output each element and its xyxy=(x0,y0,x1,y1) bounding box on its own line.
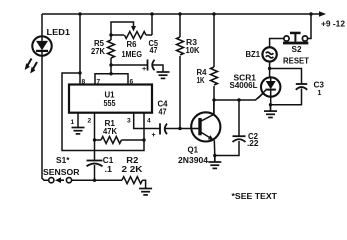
capacitor C2 xyxy=(215,100,246,156)
svg-text:2: 2 xyxy=(88,118,92,125)
node pin8 branch junction xyxy=(78,71,81,74)
LED light arrows xyxy=(25,59,37,74)
svg-text:+: + xyxy=(142,64,146,73)
LED D LED1 xyxy=(32,36,51,55)
node supply arrow xyxy=(319,11,326,17)
svg-text:27K: 27K xyxy=(91,47,105,56)
SCR SCR1 xyxy=(258,77,280,98)
capacitor C3 xyxy=(271,84,308,105)
wire pin7-pin6 bracket xyxy=(95,74,128,85)
wire LED cathode down left side xyxy=(42,56,48,181)
wire rail to R6 right xyxy=(151,14,153,35)
resistor R3 xyxy=(177,14,184,129)
capacitor C4 xyxy=(152,123,191,139)
wire pin8 column xyxy=(79,14,81,85)
svg-text:Q1: Q1 xyxy=(188,146,199,155)
svg-text:1: 1 xyxy=(318,90,322,97)
node BZ1 C3 junction xyxy=(268,67,271,70)
svg-text:+9 -12: +9 -12 xyxy=(321,19,346,28)
wire bottom sensor net xyxy=(72,179,122,181)
svg-text:6: 6 xyxy=(130,79,134,86)
svg-text:BZ1: BZ1 xyxy=(246,50,261,59)
ground C5 xyxy=(157,72,170,78)
svg-text:S2: S2 xyxy=(292,45,303,54)
wire S2 to BZ1 xyxy=(270,39,284,48)
svg-text:LED1: LED1 xyxy=(47,28,71,37)
resistor R1 xyxy=(95,137,145,144)
svg-text:2 2K: 2 2K xyxy=(122,165,143,174)
svg-text:U1: U1 xyxy=(105,91,116,100)
svg-text:1: 1 xyxy=(71,119,75,126)
svg-text:C3: C3 xyxy=(314,81,325,90)
wire C5 branch xyxy=(111,64,147,66)
svg-text:.1: .1 xyxy=(105,165,113,174)
svg-text:555: 555 xyxy=(104,99,117,108)
capacitor C1 xyxy=(87,161,103,181)
node C1 bottom junction xyxy=(93,179,96,182)
svg-text:SENSOR: SENSOR xyxy=(43,168,80,177)
node rail junction S2 xyxy=(309,12,312,15)
ground R2 xyxy=(139,189,152,195)
svg-text:47: 47 xyxy=(159,108,167,117)
svg-text:2N3904: 2N3904 xyxy=(178,156,209,165)
node C5 branch junction xyxy=(109,63,112,66)
node pin2 R1 junction xyxy=(93,138,96,141)
svg-text:*SEE TEXT: *SEE TEXT xyxy=(232,192,278,201)
potentiometer R6 xyxy=(111,22,152,39)
node emitter junction xyxy=(213,154,216,157)
node rail junction R4 xyxy=(212,12,215,15)
op-amp U1 555 box xyxy=(69,85,152,113)
buzzer BZ1 xyxy=(262,47,276,61)
node rail junction pin8 column xyxy=(78,12,81,15)
svg-text:S4006L: S4006L xyxy=(230,81,258,90)
svg-text:47: 47 xyxy=(150,46,158,55)
ground Q1 emitter xyxy=(208,156,221,169)
wire pin3 stub xyxy=(134,113,160,129)
node pin4 R1 junction xyxy=(142,138,145,141)
svg-text:+: + xyxy=(152,130,156,139)
wire pin8 to pin4 loop xyxy=(62,73,144,151)
node bracket R5 junction xyxy=(109,72,112,75)
resistor R5 xyxy=(108,35,115,74)
node C2 top junction xyxy=(237,98,240,101)
svg-text:R6: R6 xyxy=(127,40,138,49)
transistor Q1 xyxy=(191,112,221,141)
wire SCR cathode xyxy=(270,97,272,105)
ground pin1 xyxy=(72,128,85,134)
resistor R2 xyxy=(122,177,146,188)
wire BZ1 to SCR xyxy=(269,62,271,78)
svg-text:1MEG: 1MEG xyxy=(122,50,143,59)
svg-text:S1*: S1* xyxy=(56,156,71,165)
wire rail to S2 xyxy=(308,14,311,39)
wire pin1 stub xyxy=(77,113,79,127)
node rail junction R6 column xyxy=(150,12,153,15)
ground SCR xyxy=(264,105,277,118)
wire top supply rail xyxy=(42,13,320,15)
wire pin2 stub xyxy=(94,113,96,160)
wire C3 top branch xyxy=(270,69,302,84)
svg-text:7: 7 xyxy=(97,79,101,86)
node collector gate junction xyxy=(212,98,215,101)
svg-text:4: 4 xyxy=(147,118,151,125)
wire LED column from rail xyxy=(41,14,43,37)
svg-text:8: 8 xyxy=(82,79,86,86)
svg-text:1K: 1K xyxy=(197,76,205,85)
wire gate net xyxy=(214,93,264,100)
svg-text:3: 3 xyxy=(127,118,131,125)
capacitor C5 xyxy=(142,60,163,74)
svg-text:R2: R2 xyxy=(126,156,139,165)
wire Q1 collector xyxy=(213,100,215,115)
node rail junction R3 xyxy=(178,12,181,15)
switch S2 pushbutton xyxy=(283,32,308,45)
node R3 base junction xyxy=(178,127,181,130)
node R5 top junction xyxy=(109,33,112,36)
svg-text:.22: .22 xyxy=(247,139,259,148)
resistor R4 xyxy=(211,14,218,115)
svg-text:47K: 47K xyxy=(103,127,117,136)
switch S1 sensor xyxy=(49,177,72,183)
node SCR cathode junction xyxy=(269,103,272,106)
wire pin4 stub xyxy=(143,113,145,140)
svg-text:RESET: RESET xyxy=(283,55,310,65)
svg-text:10K: 10K xyxy=(186,46,200,55)
wire Q1 emitter xyxy=(213,140,216,155)
